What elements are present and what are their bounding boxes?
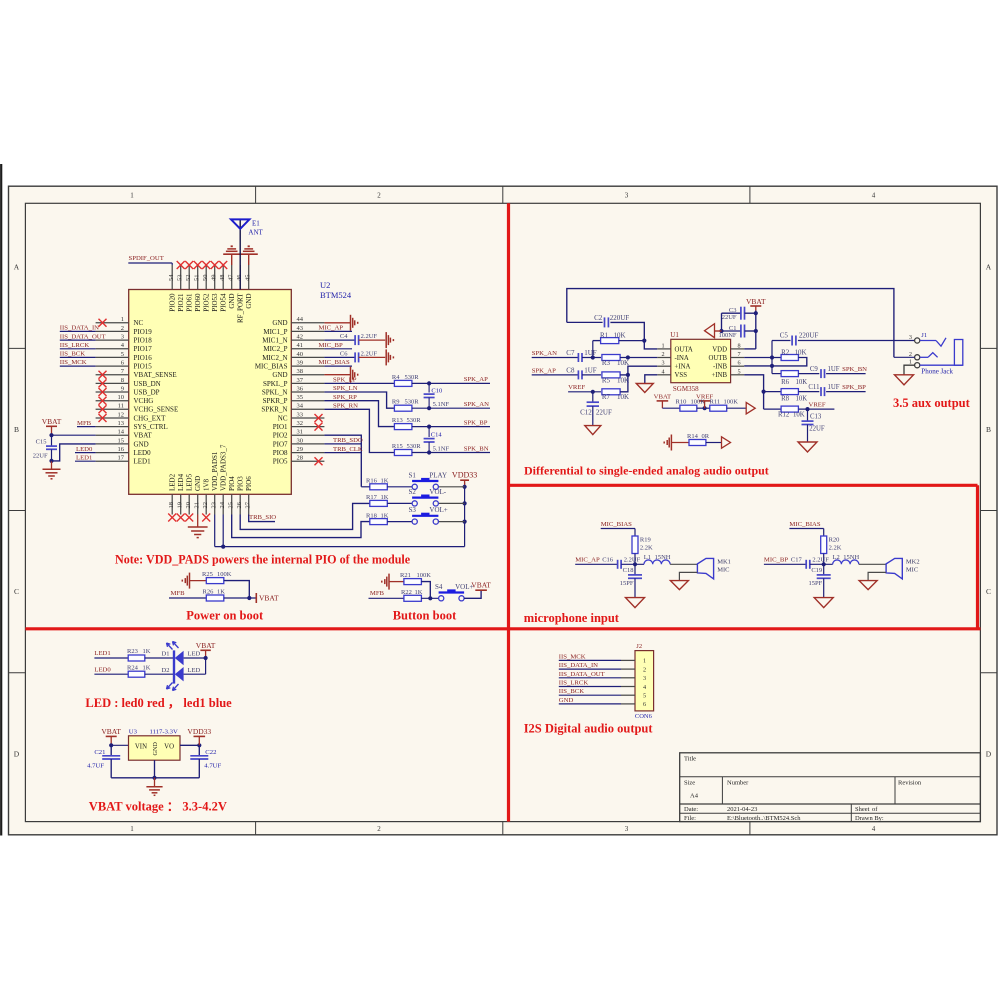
svg-text:4: 4 — [662, 368, 665, 375]
svg-text:22UF: 22UF — [722, 314, 737, 321]
svg-text:MIC2_P: MIC2_P — [263, 345, 287, 353]
svg-text:C2: C2 — [594, 314, 603, 322]
svg-text:PIO4: PIO4 — [228, 476, 236, 491]
svg-text:1UF: 1UF — [584, 349, 597, 357]
svg-text:1K: 1K — [381, 478, 389, 485]
svg-text:VCHG: VCHG — [134, 397, 154, 405]
svg-text:18: 18 — [168, 502, 175, 509]
svg-text:Revision: Revision — [898, 780, 922, 787]
svg-text:25: 25 — [228, 502, 235, 509]
svg-text:12: 12 — [118, 411, 125, 418]
svg-text:VREF: VREF — [568, 384, 585, 391]
svg-text:22UF: 22UF — [33, 453, 48, 460]
svg-text:C: C — [14, 587, 19, 596]
svg-text:VDD33: VDD33 — [452, 471, 477, 480]
svg-text:VCHG_SENSE: VCHG_SENSE — [134, 406, 179, 414]
svg-text:E:\Bluetooth..\BTM524.Sch: E:\Bluetooth..\BTM524.Sch — [727, 815, 801, 822]
svg-text:MIC_BP: MIC_BP — [319, 342, 343, 349]
svg-text:IIS_DATA_IN: IIS_DATA_IN — [60, 325, 99, 332]
svg-text:NC: NC — [278, 414, 288, 422]
svg-text:-INB: -INB — [713, 364, 727, 371]
svg-text:Button boot: Button boot — [393, 609, 457, 623]
svg-text:2.2K: 2.2K — [829, 545, 842, 552]
svg-text:R26: R26 — [203, 589, 215, 596]
svg-text:R17: R17 — [366, 494, 378, 501]
svg-text:VBAT_SENSE: VBAT_SENSE — [134, 371, 177, 379]
svg-text:GND: GND — [559, 697, 574, 704]
svg-text:530R: 530R — [407, 417, 422, 424]
svg-text:2.2UF: 2.2UF — [812, 557, 829, 564]
svg-text:R10: R10 — [676, 398, 687, 405]
svg-text:LED : led0 red ， led1 blue: LED : led0 red ， led1 blue — [85, 696, 232, 710]
svg-text:PIO53: PIO53 — [211, 293, 219, 312]
svg-text:SPKR_N: SPKR_N — [261, 406, 287, 414]
svg-text:4.7UF: 4.7UF — [204, 763, 221, 770]
svg-text:CON6: CON6 — [635, 713, 653, 720]
svg-text:NC: NC — [134, 319, 144, 327]
svg-text:2021-04-23: 2021-04-23 — [727, 806, 757, 813]
svg-text:B: B — [14, 425, 19, 434]
svg-text:1K: 1K — [143, 648, 151, 655]
svg-text:SPK_LN: SPK_LN — [333, 385, 358, 392]
svg-text:MFB: MFB — [370, 590, 385, 597]
svg-text:2: 2 — [662, 351, 665, 358]
svg-text:B: B — [986, 425, 991, 434]
svg-text:28: 28 — [297, 455, 304, 462]
svg-text:PIO17: PIO17 — [134, 345, 153, 353]
svg-text:7: 7 — [738, 351, 741, 358]
svg-text:220UF: 220UF — [799, 332, 819, 340]
svg-text:GND: GND — [152, 742, 159, 756]
svg-text:PIO21: PIO21 — [177, 293, 185, 312]
svg-text:C13: C13 — [810, 413, 822, 420]
svg-text:Size: Size — [684, 780, 695, 787]
svg-text:1117-3.3V: 1117-3.3V — [150, 729, 178, 736]
svg-text:R2: R2 — [781, 349, 790, 357]
svg-text:GND: GND — [194, 476, 202, 491]
svg-text:U3: U3 — [129, 729, 138, 736]
svg-text:1: 1 — [121, 316, 124, 323]
svg-text:USB_DN: USB_DN — [134, 380, 161, 388]
svg-text:54: 54 — [168, 274, 175, 281]
svg-text:IIS_MCK: IIS_MCK — [60, 359, 87, 366]
svg-text:10K: 10K — [793, 411, 805, 418]
svg-text:SPK_BP: SPK_BP — [842, 384, 866, 391]
svg-text:1UF: 1UF — [828, 384, 840, 391]
svg-text:IIS_DATA_OUT: IIS_DATA_OUT — [559, 671, 605, 678]
svg-text:21: 21 — [194, 502, 201, 509]
svg-text:2.2UF: 2.2UF — [361, 333, 378, 340]
svg-text:1K: 1K — [217, 589, 225, 596]
svg-text:22UF: 22UF — [809, 426, 825, 433]
svg-text:9: 9 — [121, 385, 124, 392]
svg-text:IIS_DATA_OUT: IIS_DATA_OUT — [60, 333, 106, 340]
svg-text:6: 6 — [643, 701, 646, 708]
svg-text:3: 3 — [909, 334, 912, 341]
svg-text:100K: 100K — [724, 398, 739, 405]
svg-text:LED0: LED0 — [94, 666, 111, 673]
svg-text:SPKR_P: SPKR_P — [263, 397, 288, 405]
svg-text:D: D — [986, 750, 992, 759]
svg-text:R3: R3 — [602, 359, 611, 367]
svg-text:S2: S2 — [409, 488, 417, 496]
svg-text:C: C — [986, 587, 991, 596]
svg-text:1: 1 — [130, 825, 134, 833]
svg-text:D1: D1 — [162, 651, 170, 658]
svg-text:Power on boot: Power on boot — [186, 609, 264, 623]
svg-text:Differential to single-ended a: Differential to single-ended analog audi… — [524, 464, 769, 478]
svg-text:SGM358: SGM358 — [673, 385, 699, 393]
svg-text:41: 41 — [297, 342, 304, 349]
svg-text:MIC: MIC — [906, 566, 918, 573]
svg-text:MIC: MIC — [717, 566, 729, 573]
svg-text:22: 22 — [202, 502, 209, 509]
svg-text:OUTA: OUTA — [675, 346, 693, 353]
svg-text:1: 1 — [130, 192, 134, 200]
svg-text:1V8: 1V8 — [203, 478, 211, 491]
svg-text:1: 1 — [643, 658, 646, 665]
svg-text:Phone Jack: Phone Jack — [921, 368, 953, 376]
svg-text:15: 15 — [118, 437, 125, 444]
svg-text:6: 6 — [738, 360, 741, 367]
svg-text:MIC_BIAS: MIC_BIAS — [789, 521, 820, 528]
svg-text:53: 53 — [177, 275, 184, 282]
svg-text:530R: 530R — [407, 443, 422, 450]
svg-text:1UF: 1UF — [584, 366, 597, 374]
svg-text:Sheet: Sheet — [855, 806, 870, 813]
svg-text:48: 48 — [219, 275, 226, 282]
svg-text:PIO7: PIO7 — [273, 440, 288, 448]
svg-text:L2: L2 — [833, 554, 840, 561]
svg-text:R1: R1 — [600, 332, 609, 340]
svg-text:R4: R4 — [392, 374, 400, 381]
svg-text:15NH: 15NH — [655, 554, 671, 561]
svg-text:MIC_AP: MIC_AP — [575, 557, 600, 564]
svg-text:4: 4 — [872, 192, 876, 200]
svg-text:C14: C14 — [431, 432, 443, 439]
svg-text:1K: 1K — [381, 494, 389, 501]
svg-text:27: 27 — [245, 501, 252, 508]
svg-text:16: 16 — [118, 446, 125, 453]
svg-text:30: 30 — [297, 437, 304, 444]
svg-text:GND: GND — [272, 371, 287, 379]
svg-text:C17: C17 — [791, 557, 803, 564]
svg-text:26: 26 — [236, 501, 243, 508]
svg-text:USB_DP: USB_DP — [134, 388, 160, 396]
svg-text:3: 3 — [643, 675, 646, 682]
svg-text:2: 2 — [377, 192, 381, 200]
svg-text:SPK_BN: SPK_BN — [464, 445, 489, 452]
svg-text:C10: C10 — [431, 388, 442, 395]
svg-text:VBAT: VBAT — [471, 581, 491, 590]
svg-text:20: 20 — [185, 502, 192, 509]
svg-text:U1: U1 — [670, 331, 679, 339]
svg-text:5: 5 — [643, 693, 646, 700]
svg-text:22UF: 22UF — [596, 409, 612, 417]
svg-text:BTM524: BTM524 — [320, 290, 352, 300]
svg-text:S1: S1 — [409, 471, 417, 479]
svg-text:C22: C22 — [205, 749, 216, 756]
svg-text:15PF: 15PF — [808, 580, 822, 587]
svg-text:J2: J2 — [636, 643, 642, 650]
svg-text:32: 32 — [297, 420, 304, 427]
svg-text:44: 44 — [297, 316, 304, 323]
svg-text:VBAT: VBAT — [654, 394, 671, 401]
svg-text:C12: C12 — [580, 409, 592, 417]
svg-text:C3: C3 — [729, 307, 737, 314]
svg-text:3: 3 — [662, 360, 665, 367]
svg-text:PIO61: PIO61 — [186, 293, 194, 312]
svg-text:A: A — [14, 263, 20, 272]
svg-text:35: 35 — [297, 394, 304, 401]
svg-text:45: 45 — [245, 275, 252, 282]
svg-text:VBAT: VBAT — [101, 727, 121, 736]
svg-text:I2S Digital audio output: I2S Digital audio output — [524, 722, 654, 736]
svg-text:C18: C18 — [623, 567, 634, 574]
svg-text:R13: R13 — [392, 417, 403, 424]
svg-text:100NF: 100NF — [718, 332, 736, 339]
svg-text:R11: R11 — [710, 398, 721, 405]
svg-text:R12: R12 — [778, 411, 790, 418]
svg-text:5: 5 — [121, 351, 124, 358]
svg-text:VBAT: VBAT — [134, 432, 153, 440]
svg-text:R19: R19 — [640, 537, 651, 544]
svg-text:MIC_AP: MIC_AP — [319, 325, 344, 332]
svg-text:U2: U2 — [320, 280, 330, 290]
svg-text:100K: 100K — [691, 398, 706, 405]
svg-text:MFB: MFB — [77, 420, 92, 427]
svg-text:-INA: -INA — [675, 355, 689, 362]
svg-text:SPK_BN: SPK_BN — [842, 366, 867, 373]
svg-text:Title: Title — [684, 756, 696, 763]
svg-text:A: A — [986, 263, 992, 272]
svg-text:GND: GND — [228, 294, 236, 309]
svg-text:IIS_LRCK: IIS_LRCK — [559, 680, 589, 687]
svg-text:VBAT voltage ： 3.3-4.2V: VBAT voltage ： 3.3-4.2V — [89, 800, 227, 814]
svg-text:17: 17 — [118, 455, 125, 462]
svg-text:VIN: VIN — [135, 744, 147, 751]
svg-text:LED2: LED2 — [169, 473, 177, 491]
svg-text:PIO1: PIO1 — [273, 423, 288, 431]
svg-text:MFB: MFB — [171, 590, 186, 597]
svg-text:C21: C21 — [94, 749, 105, 756]
svg-text:15NH: 15NH — [843, 554, 859, 561]
svg-text:CHG_EXT: CHG_EXT — [134, 414, 167, 422]
svg-text:R22: R22 — [401, 589, 412, 596]
svg-text:PLAY: PLAY — [429, 471, 447, 479]
svg-text:1UF: 1UF — [828, 366, 840, 373]
svg-text:microphone input: microphone input — [524, 611, 620, 625]
svg-text:R16: R16 — [366, 478, 378, 485]
svg-text:3.5 aux output: 3.5 aux output — [893, 396, 971, 410]
svg-text:VDD33: VDD33 — [187, 727, 211, 736]
svg-text:PIO18: PIO18 — [134, 337, 153, 345]
svg-text:IIS_BCK: IIS_BCK — [559, 688, 584, 695]
svg-text:2: 2 — [643, 666, 646, 673]
svg-text:PIO6: PIO6 — [245, 476, 253, 491]
svg-text:1K: 1K — [143, 664, 151, 671]
svg-text:11: 11 — [118, 403, 124, 410]
svg-text:LED0: LED0 — [76, 446, 93, 453]
svg-text:IIS_BCK: IIS_BCK — [60, 351, 85, 358]
svg-text:C6: C6 — [340, 350, 348, 357]
svg-text:34: 34 — [297, 403, 304, 410]
svg-text:D: D — [14, 750, 20, 759]
svg-text:IIS_MCK: IIS_MCK — [559, 653, 586, 660]
svg-text:3: 3 — [625, 825, 629, 833]
svg-text:3: 3 — [625, 192, 629, 200]
svg-text:10K: 10K — [796, 396, 808, 403]
svg-text:19: 19 — [177, 502, 184, 509]
svg-text:5: 5 — [738, 368, 741, 375]
svg-text:C19: C19 — [811, 567, 822, 574]
svg-text:VBAT: VBAT — [42, 417, 62, 426]
svg-text:D2: D2 — [162, 667, 170, 674]
svg-text:530R: 530R — [405, 374, 420, 381]
svg-text:MIC_BP: MIC_BP — [764, 557, 788, 564]
svg-text:OUTB: OUTB — [708, 355, 727, 362]
svg-text:LED0: LED0 — [134, 449, 152, 457]
svg-text:+INB: +INB — [711, 372, 727, 379]
svg-text:R8: R8 — [781, 396, 790, 403]
svg-text:LED5: LED5 — [186, 473, 194, 491]
svg-text:SPDIF_OUT: SPDIF_OUT — [129, 255, 164, 262]
svg-text:PIO5: PIO5 — [273, 458, 288, 466]
svg-text:PIO15: PIO15 — [134, 362, 153, 370]
svg-text:ANT: ANT — [248, 228, 263, 236]
svg-text:SPK_RP: SPK_RP — [333, 394, 357, 401]
svg-text:R14: R14 — [687, 433, 699, 440]
svg-text:VO: VO — [164, 744, 174, 751]
svg-text:C1: C1 — [729, 325, 737, 332]
svg-text:VOL-: VOL- — [429, 488, 446, 496]
svg-text:File:: File: — [684, 815, 696, 822]
svg-text:43: 43 — [297, 325, 304, 332]
svg-text:LED: LED — [188, 651, 201, 658]
svg-text:MIC_BIAS: MIC_BIAS — [319, 359, 350, 366]
svg-text:38: 38 — [297, 368, 304, 375]
svg-text:GND: GND — [134, 440, 149, 448]
svg-text:GND: GND — [272, 319, 287, 327]
svg-text:1K: 1K — [415, 589, 423, 596]
svg-text:100K: 100K — [417, 572, 432, 579]
svg-text:47: 47 — [228, 274, 235, 281]
svg-text:MIC_BIAS: MIC_BIAS — [601, 521, 632, 528]
svg-text:31: 31 — [297, 429, 304, 436]
svg-text:PIO60: PIO60 — [194, 293, 202, 312]
svg-text:SYS_CTRL: SYS_CTRL — [134, 423, 168, 431]
svg-text:R15: R15 — [392, 443, 403, 450]
svg-text:2.2K: 2.2K — [640, 545, 653, 552]
svg-text:8: 8 — [121, 377, 124, 384]
svg-text:SPK_AP: SPK_AP — [464, 376, 488, 383]
svg-text:4: 4 — [643, 684, 646, 691]
svg-text:10K: 10K — [796, 379, 808, 386]
svg-text:SPK_AP: SPK_AP — [532, 367, 556, 374]
svg-text:SPK_AN: SPK_AN — [532, 350, 557, 357]
svg-text:Date:: Date: — [684, 806, 698, 813]
svg-text:IIS_LRCK: IIS_LRCK — [60, 342, 90, 349]
svg-text:VBAT: VBAT — [196, 641, 216, 650]
svg-text:0R: 0R — [702, 433, 710, 440]
svg-text:13: 13 — [118, 420, 125, 427]
svg-text:MIC_BIAS: MIC_BIAS — [255, 362, 288, 370]
svg-text:10: 10 — [118, 394, 125, 401]
svg-text:R6: R6 — [781, 379, 790, 386]
svg-text:Drawn By:: Drawn By: — [855, 815, 884, 822]
svg-text:100K: 100K — [217, 571, 232, 578]
svg-text:R7: R7 — [602, 393, 611, 401]
svg-text:10K: 10K — [617, 393, 629, 401]
svg-text:SPKL_P: SPKL_P — [263, 380, 288, 388]
svg-text:C16: C16 — [602, 557, 614, 564]
svg-text:R21: R21 — [400, 572, 411, 579]
svg-text:5.1NF: 5.1NF — [433, 401, 450, 408]
svg-text:LED1: LED1 — [94, 650, 110, 657]
svg-text:4.7UF: 4.7UF — [87, 763, 104, 770]
svg-text:SPK_RN: SPK_RN — [333, 403, 358, 410]
svg-text:220UF: 220UF — [610, 314, 630, 322]
svg-text:C7: C7 — [566, 349, 575, 357]
svg-text:37: 37 — [297, 377, 304, 384]
svg-text:MK2: MK2 — [906, 558, 920, 565]
svg-text:Number: Number — [727, 780, 749, 787]
svg-text:R20: R20 — [829, 537, 840, 544]
svg-text:C4: C4 — [340, 333, 348, 340]
svg-text:VDD_PADS3_7: VDD_PADS3_7 — [220, 444, 228, 491]
svg-text:SPK_LP: SPK_LP — [333, 377, 357, 384]
svg-text:51: 51 — [194, 275, 201, 282]
svg-text:TRB_CLK: TRB_CLK — [333, 446, 363, 453]
svg-text:49: 49 — [211, 275, 218, 282]
svg-text:MIC1_P: MIC1_P — [263, 328, 287, 336]
svg-text:10K: 10K — [795, 349, 807, 357]
svg-text:S4: S4 — [435, 583, 443, 591]
svg-text:MIC2_N: MIC2_N — [262, 354, 287, 362]
svg-text:14: 14 — [118, 429, 125, 436]
svg-text:MK1: MK1 — [717, 558, 731, 565]
svg-text:VDD_PADS1: VDD_PADS1 — [211, 451, 219, 491]
svg-text:SPKL_N: SPKL_N — [262, 388, 288, 396]
svg-text:4: 4 — [872, 825, 876, 833]
svg-text:PIO8: PIO8 — [273, 449, 288, 457]
svg-text:R5: R5 — [602, 376, 611, 384]
svg-text:530R: 530R — [405, 399, 420, 406]
svg-text:LED: LED — [188, 667, 201, 674]
svg-text:52: 52 — [185, 275, 192, 282]
svg-text:5.1NF: 5.1NF — [433, 445, 450, 452]
svg-text:VSS: VSS — [675, 372, 688, 379]
svg-text:PIO16: PIO16 — [134, 354, 153, 362]
svg-text:IIS_DATA_IN: IIS_DATA_IN — [559, 662, 598, 669]
svg-text:PIO54: PIO54 — [220, 293, 228, 312]
svg-text:50: 50 — [202, 275, 209, 282]
svg-text:RF_PORT: RF_PORT — [237, 293, 245, 323]
svg-text:C5: C5 — [780, 332, 789, 340]
svg-text:TRB_SIO: TRB_SIO — [249, 514, 276, 521]
svg-text:E1: E1 — [252, 220, 260, 228]
svg-text:VREF: VREF — [809, 401, 826, 408]
svg-text:R24: R24 — [127, 664, 139, 671]
svg-text:C15: C15 — [36, 439, 47, 446]
svg-text:PIO52: PIO52 — [203, 293, 211, 312]
svg-text:40: 40 — [297, 351, 304, 358]
svg-text:LED1: LED1 — [76, 454, 92, 461]
svg-text:J1: J1 — [921, 332, 927, 339]
svg-text:GND: GND — [245, 294, 253, 309]
svg-text:2: 2 — [121, 325, 124, 332]
svg-text:2.2UF: 2.2UF — [624, 557, 641, 564]
